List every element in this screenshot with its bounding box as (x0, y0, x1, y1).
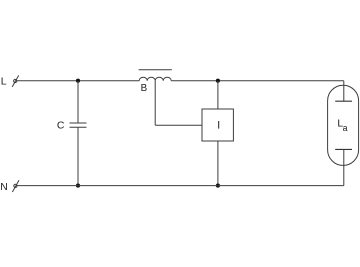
svg-text:N: N (0, 182, 8, 193)
node: bottom of ignitor branch (216, 184, 220, 188)
label I (218, 121, 220, 129)
ignitor I (202, 109, 233, 141)
wire: bottom electrode to bottom wire (343, 149, 345, 185)
lamp electrode bottom (335, 148, 352, 150)
ballast B (inductor with core bar and centre tap) (139, 70, 172, 81)
wire: ballast tap to ignitor (155, 81, 202, 126)
capacitor C (70, 81, 87, 186)
terminal N (12, 180, 19, 192)
wire top: L terminal to ballast (17, 80, 139, 82)
wire: ignitor to bottom node (217, 141, 219, 186)
wire top: ballast to lamp (171, 80, 344, 82)
label La (337, 119, 347, 133)
lamp electrode top (335, 100, 352, 102)
svg-text:B: B (141, 83, 148, 94)
node: top of capacitor branch (76, 79, 80, 83)
svg-text:a: a (343, 123, 348, 133)
svg-text:C: C (57, 121, 65, 132)
node: bottom of capacitor branch (76, 184, 80, 188)
wire bottom: N terminal to lamp (17, 185, 344, 187)
lamp La (discharge lamp envelope) (328, 85, 359, 165)
terminal L (12, 75, 19, 87)
svg-text:L: L (1, 77, 7, 88)
wire: top node to ignitor (217, 81, 219, 109)
node: top of ignitor branch (216, 79, 220, 83)
wire: top wire down to lamp electrode (343, 81, 345, 102)
